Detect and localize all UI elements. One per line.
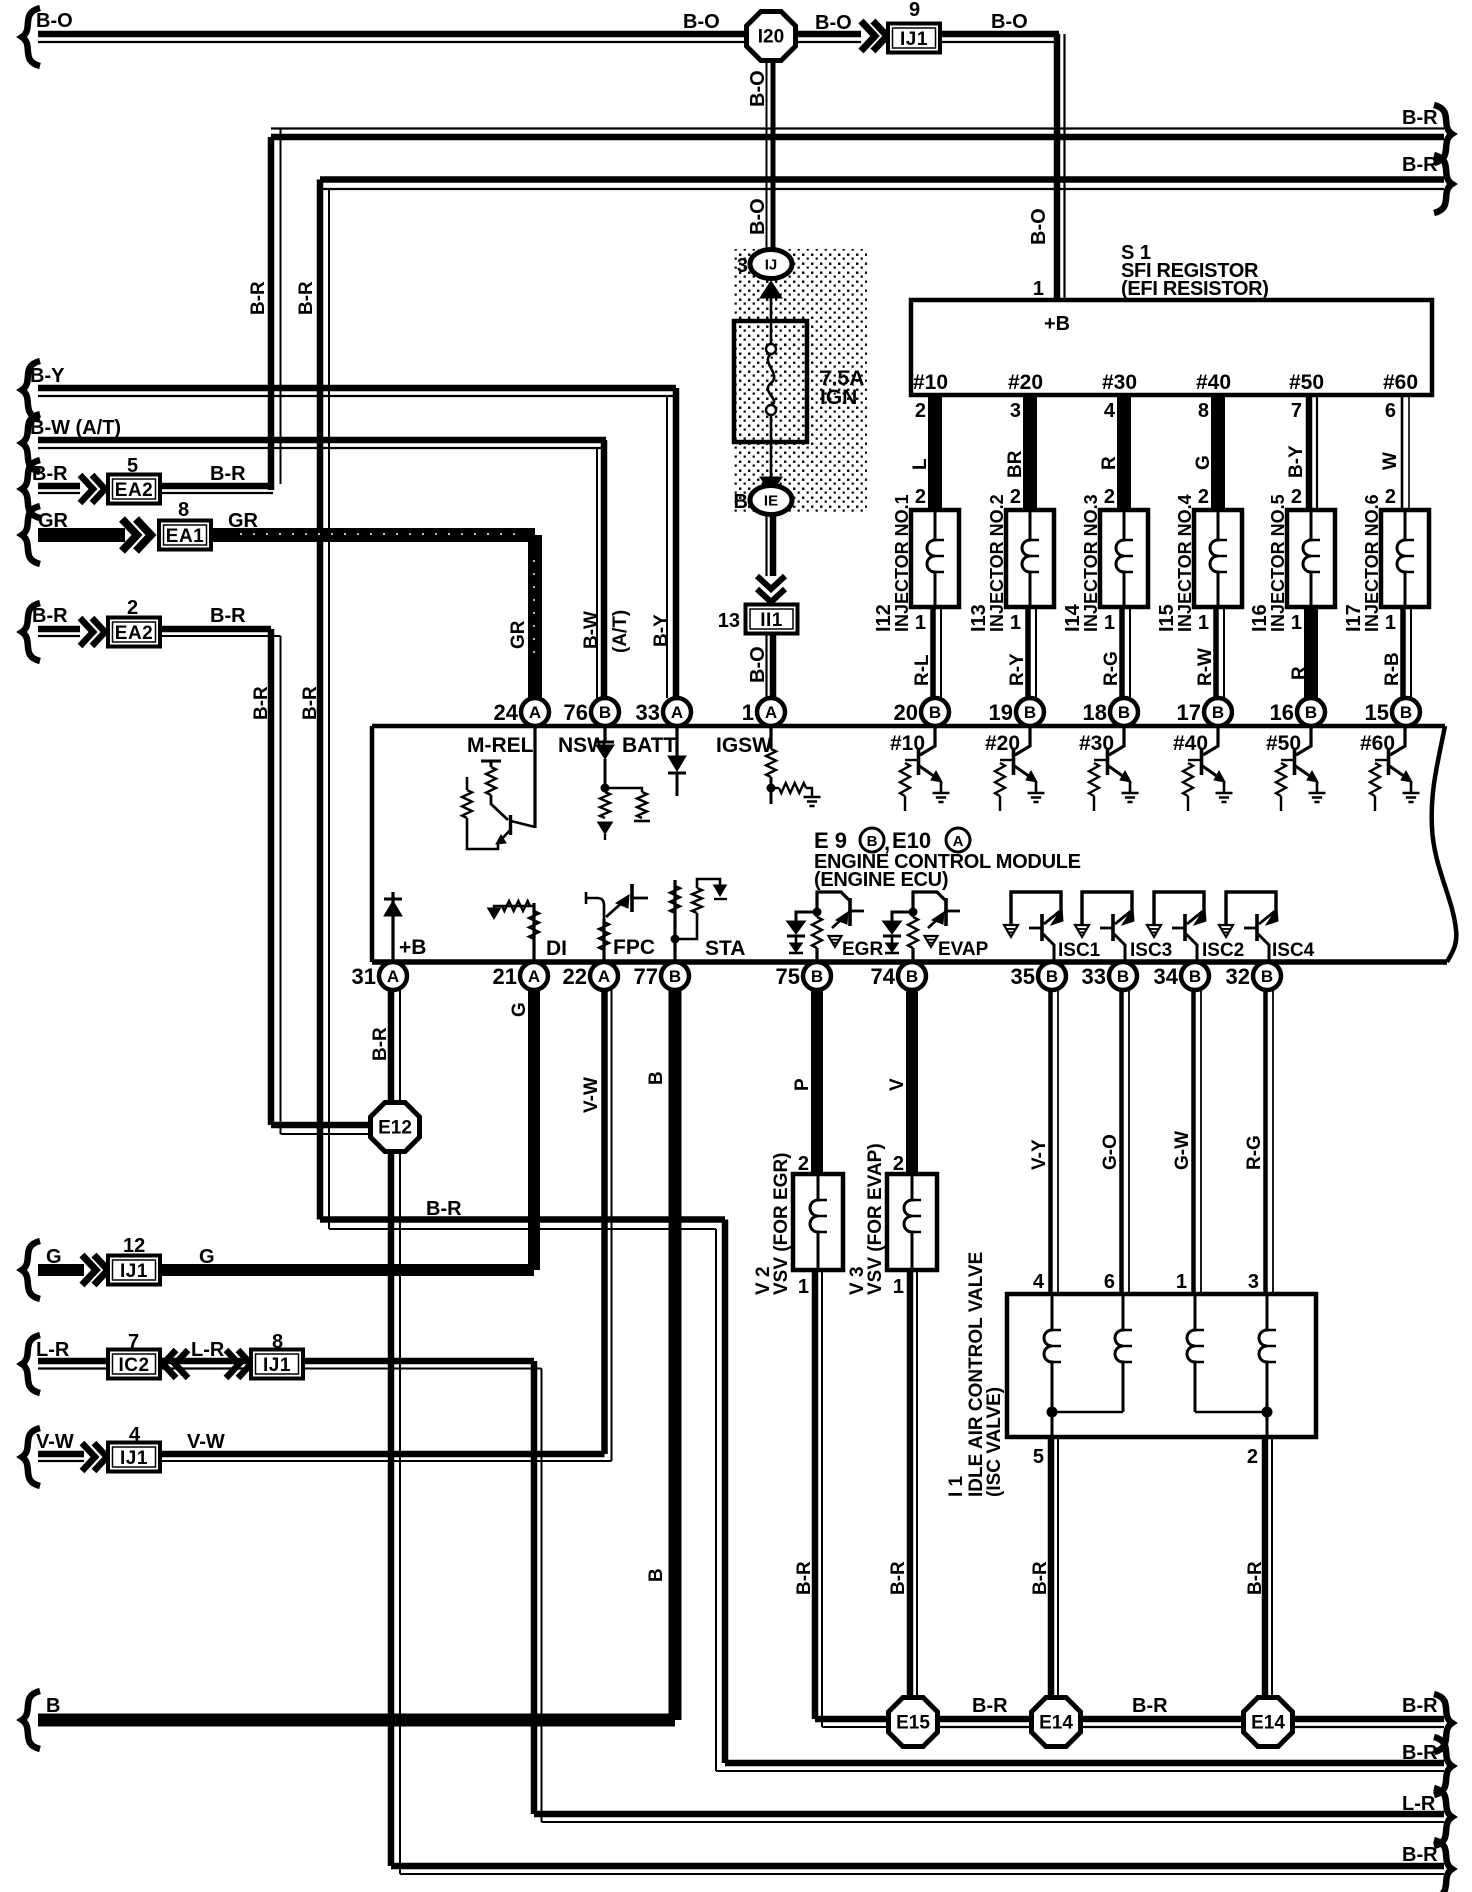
- svg-text:22: 22: [563, 964, 587, 989]
- ECU top pin 15(B): [1365, 698, 1420, 726]
- svg-text:B-R: B-R: [1402, 1695, 1438, 1717]
- svg-text:2: 2: [1247, 1446, 1258, 1468]
- wire B-O from IJ1 to SFI resistor +B: [940, 11, 1065, 300]
- svg-text:B-R: B-R: [1402, 1742, 1438, 1764]
- svg-text:#10: #10: [913, 371, 948, 394]
- svg-text:A: A: [671, 703, 683, 722]
- svg-text:4: 4: [129, 1424, 141, 1446]
- svg-text:EGR: EGR: [842, 939, 883, 960]
- SFI resistor output #60 label: [1383, 371, 1418, 394]
- svg-text:B-R: B-R: [248, 281, 269, 315]
- svg-text:#50: #50: [1289, 371, 1324, 394]
- wire G from page edge via IJ1 pin 12 to ECU pin 21(A) DI: [22, 1241, 84, 1299]
- wire B-R from E14 to E14: [1082, 1695, 1242, 1727]
- wire B-R horizontal 1223 turning down to bottom-right B-R output: [426, 1198, 1452, 1795]
- wire B-W (A/T) from page edge to ECU pin 76(B) NSW: [22, 414, 631, 698]
- svg-text:19: 19: [989, 700, 1013, 725]
- wire B-R lower to page right: [296, 154, 1452, 315]
- in-line connector oval 3 IJ: [737, 250, 792, 279]
- svg-text:V-W: V-W: [36, 1431, 74, 1453]
- svg-text:B-O: B-O: [747, 70, 769, 107]
- svg-text:R-W: R-W: [1195, 648, 1216, 686]
- svg-text:B-R: B-R: [1245, 1561, 1266, 1595]
- ECU internal injector driver #30: [1079, 728, 1139, 811]
- wire V-W from IJ1-4 up to pin 22(A): [160, 990, 612, 1461]
- ECU top pin 17(B): [1177, 698, 1232, 726]
- svg-text:II1: II1: [760, 610, 783, 631]
- wire B-R vertical from upper-right run down to lower junction: [300, 180, 725, 1230]
- svg-text:INJECTOR NO.6: INJECTOR NO.6: [1362, 494, 1382, 632]
- wire V from ECU pin 74(B) to VSV for EVAP: [887, 990, 912, 1175]
- svg-text:8: 8: [1198, 400, 1209, 422]
- in-line connector oval B IE: [734, 486, 792, 515]
- ECU internal EVAP driver with zener: [883, 892, 989, 962]
- wire GR from page edge via EA1 pin 8 to ECU pin 24(A) M-REL: [22, 506, 125, 564]
- svg-text:7: 7: [1291, 400, 1302, 422]
- wire G-O from ECU to ISC valve pin 6: [1100, 990, 1129, 1294]
- ECU top pin 33(A): [636, 698, 691, 726]
- svg-text:B-R: B-R: [251, 686, 272, 720]
- svg-text:I20: I20: [758, 27, 784, 48]
- svg-text:B-Y: B-Y: [651, 614, 672, 647]
- ECU bottom pin 34(B): [1154, 962, 1209, 990]
- wire B-R from ECU pin 31(A) to ground connector E12: [370, 990, 400, 1101]
- svg-text:EA2: EA2: [115, 480, 153, 501]
- svg-text:13: 13: [718, 610, 740, 632]
- connector EA1 pin 8: [159, 499, 211, 550]
- junction block IJ1, pin 9: [888, 0, 940, 53]
- wire R-G from injector no.3 to ECU pin: [1101, 607, 1130, 698]
- SFI resistor output #40 label: [1196, 371, 1231, 394]
- label E 9 (B), E10 (A): [814, 828, 970, 855]
- svg-text:5: 5: [127, 455, 138, 477]
- wire B-R from E12 down to page bottom right: [391, 1153, 1452, 1892]
- svg-text:IC2: IC2: [118, 1355, 149, 1376]
- svg-text:1: 1: [1176, 1271, 1187, 1293]
- svg-text:7: 7: [128, 1331, 139, 1353]
- VSV (for EGR) V2 solenoid: [753, 1152, 843, 1298]
- wire R-Y from injector no.2 to ECU pin: [1007, 607, 1036, 698]
- ECU top pin 20(B): [894, 698, 949, 726]
- svg-text:E15: E15: [896, 1713, 930, 1734]
- wire W from resistor pin 6 to injector no.6: [1380, 395, 1409, 510]
- svg-text:IJ1: IJ1: [263, 1355, 291, 1376]
- svg-text:ISC2: ISC2: [1202, 940, 1244, 961]
- ECU bottom pin 35(B): [1011, 962, 1066, 990]
- ECU bottom pin 33(B): [1082, 962, 1137, 990]
- svg-text:32: 32: [1226, 964, 1250, 989]
- shaded area around fuse 7.5A IGN: [734, 249, 867, 512]
- arrow into IJ1-12: [82, 1255, 108, 1285]
- wire G from resistor pin 8 to injector no.4: [1193, 395, 1218, 510]
- svg-text:31: 31: [352, 964, 376, 989]
- ECU internal STA starter input: [670, 879, 745, 962]
- svg-text:B: B: [1024, 703, 1036, 722]
- wire GR from EA1 turning down to pin 24(A): [211, 510, 535, 698]
- ECU internal FPC fuel pump control transistor: [586, 884, 655, 962]
- svg-text:B-O: B-O: [1028, 208, 1050, 245]
- svg-text:2: 2: [1104, 486, 1115, 508]
- SFI resistor output #30 label: [1102, 371, 1137, 394]
- svg-text:#60: #60: [1383, 371, 1418, 394]
- svg-text:B-O: B-O: [747, 198, 769, 235]
- wire B-R from EA2-5 to vertical: [160, 463, 273, 493]
- svg-text:3: 3: [1010, 400, 1021, 422]
- svg-text:2: 2: [1198, 486, 1209, 508]
- svg-text:B: B: [1400, 703, 1412, 722]
- svg-text:3: 3: [737, 255, 748, 277]
- wire B-Y from resistor pin 7 to injector no.5: [1286, 395, 1317, 510]
- wire R from injector no.5 to ECU pin: [1289, 607, 1311, 698]
- svg-text:B: B: [867, 833, 878, 850]
- svg-text:GR: GR: [508, 620, 529, 649]
- wire P from ECU pin 75(B) to VSV for EGR: [792, 990, 817, 1175]
- svg-text:8: 8: [272, 1331, 283, 1353]
- wire R-B from injector no.6 to ECU pin: [1382, 607, 1411, 698]
- svg-text:2: 2: [915, 400, 926, 422]
- svg-text:B-W (A/T): B-W (A/T): [30, 417, 121, 439]
- svg-text:2: 2: [893, 1153, 904, 1175]
- ECU internal NSW input: [558, 726, 650, 840]
- svg-text:A: A: [953, 833, 964, 850]
- svg-text:VSV (FOR EVAP): VSV (FOR EVAP): [865, 1143, 886, 1295]
- svg-text:VSV (FOR EGR): VSV (FOR EGR): [771, 1152, 792, 1295]
- ISC valve common bus with junctions: [1047, 1407, 1272, 1437]
- svg-text:B: B: [929, 703, 941, 722]
- svg-text:DI: DI: [546, 937, 567, 960]
- wire B-R from page edge via EA2 pin 2 down to ground connector E12: [22, 603, 80, 661]
- ECU internal injector driver #60: [1360, 728, 1420, 811]
- wire B-R upper to page right: [248, 105, 1452, 490]
- ECU bottom pin 22(A): [563, 962, 618, 990]
- ECU bottom pin 31(A): [352, 962, 407, 990]
- svg-text:B-R: B-R: [1132, 1695, 1168, 1717]
- svg-text:2: 2: [915, 486, 926, 508]
- wire G-W from ECU to ISC valve pin 1: [1172, 990, 1201, 1294]
- ground connector E14 (left): [1032, 1698, 1081, 1747]
- svg-text:1: 1: [1104, 612, 1115, 634]
- svg-text:IGSW: IGSW: [716, 734, 772, 757]
- ECU internal injector driver #50: [1266, 728, 1326, 811]
- svg-text:A: A: [529, 703, 541, 722]
- svg-text:E12: E12: [378, 1118, 412, 1139]
- fuse 7.5A IGN: [734, 321, 864, 442]
- svg-text:1: 1: [742, 700, 754, 725]
- svg-text:A: A: [387, 967, 399, 986]
- SFI resistor output #50 label: [1289, 371, 1324, 394]
- arrow into EA1: [122, 519, 151, 551]
- svg-text:L-R: L-R: [1402, 1793, 1436, 1815]
- svg-text:I 1: I 1: [946, 1475, 967, 1497]
- svg-text:B: B: [599, 703, 611, 722]
- svg-text:L-R: L-R: [36, 1339, 70, 1361]
- svg-text:G: G: [46, 1246, 62, 1268]
- svg-text:L: L: [910, 458, 931, 470]
- ECU internal DI: [488, 901, 568, 962]
- svg-text:E14: E14: [1039, 1713, 1073, 1734]
- svg-text:B: B: [1305, 703, 1317, 722]
- junction block IJ1 pin 8: [251, 1331, 303, 1379]
- svg-text:24: 24: [494, 700, 519, 725]
- connector EA2 pin 5: [108, 455, 160, 504]
- svg-text:BR: BR: [1005, 450, 1026, 478]
- ECU internal IGSW input: [716, 726, 821, 806]
- svg-text:B-R: B-R: [210, 605, 246, 627]
- svg-text:B-O: B-O: [991, 11, 1028, 33]
- svg-text:#30: #30: [1102, 371, 1137, 394]
- wire B-R from EA2-2 down to E12: [160, 605, 369, 1134]
- wire B-O from II1 to ECU pin 1(A) IGSW: [747, 633, 773, 698]
- ECU internal ISC4 driver: [1219, 892, 1315, 962]
- ECU internal ISC3 driver: [1075, 892, 1172, 962]
- wire B-R from VSV EGR pin 1 to ground connector E15: [794, 1270, 888, 1727]
- svg-text:G-O: G-O: [1100, 1134, 1121, 1170]
- svg-text:1: 1: [1385, 612, 1396, 634]
- svg-text:E10: E10: [892, 828, 931, 853]
- svg-text:INJECTOR NO.1: INJECTOR NO.1: [892, 494, 912, 632]
- svg-text:B: B: [1046, 967, 1058, 986]
- svg-text:6: 6: [1104, 1271, 1115, 1293]
- ECU bottom pin 32(B): [1226, 962, 1281, 990]
- connector EA2 pin 2: [108, 597, 160, 647]
- ISC valve coil 3: [1187, 1296, 1204, 1412]
- wire L-R from page edge via IC2 pin 7 and IJ1 pin 8 to page bottom: [22, 1335, 108, 1393]
- label ENGINE CONTROL MODULE (ENGINE ECU): [814, 851, 1081, 891]
- svg-text:B-R: B-R: [1402, 1844, 1438, 1866]
- svg-text:2: 2: [1010, 486, 1021, 508]
- svg-text:IE: IE: [764, 493, 778, 510]
- junction block II1, pin 13: [718, 605, 798, 634]
- ECU internal ISC2 driver: [1147, 892, 1244, 962]
- svg-text:77: 77: [634, 964, 658, 989]
- svg-text:16: 16: [1270, 700, 1294, 725]
- svg-text:B: B: [646, 1568, 667, 1582]
- ECU bottom pin 74(B): [871, 962, 926, 990]
- svg-text:E 9: E 9: [814, 828, 847, 853]
- svg-text:M-REL: M-REL: [467, 734, 534, 757]
- svg-text:STA: STA: [705, 937, 745, 960]
- svg-text:B: B: [906, 967, 918, 986]
- SFI resistor S1 box: [911, 242, 1432, 395]
- svg-text:INJECTOR NO.2: INJECTOR NO.2: [987, 494, 1007, 632]
- svg-text:B-R: B-R: [1030, 1561, 1051, 1595]
- svg-text:P: P: [792, 1078, 813, 1091]
- svg-text:W: W: [1380, 452, 1401, 470]
- svg-text:B-O: B-O: [683, 11, 720, 33]
- engine control module box outline: [372, 726, 1456, 962]
- svg-text:5: 5: [1033, 1446, 1044, 1468]
- ECU internal injector driver #10: [890, 728, 950, 811]
- arrow into IJ1-4: [82, 1443, 107, 1471]
- svg-text:L-R: L-R: [191, 1339, 225, 1361]
- SFI resistor output #10 label: [913, 371, 948, 394]
- wire R-G from ECU to ISC valve pin 3: [1244, 990, 1273, 1294]
- svg-text:4: 4: [1104, 400, 1116, 422]
- wire R-L from injector no.1 to ECU pin: [912, 607, 941, 698]
- svg-text:R-Y: R-Y: [1007, 653, 1028, 686]
- svg-text:R-B: R-B: [1382, 652, 1403, 686]
- arrow into EA2: [80, 475, 105, 503]
- svg-text:4: 4: [1033, 1271, 1045, 1293]
- svg-text:#40: #40: [1196, 371, 1231, 394]
- svg-text:B-Y: B-Y: [1286, 445, 1307, 478]
- ECU internal +B diode: [384, 892, 426, 962]
- svg-text:20: 20: [894, 700, 918, 725]
- svg-text:9: 9: [909, 0, 920, 21]
- ECU top pin 24(A): [494, 698, 549, 726]
- arrows into II1: [757, 576, 785, 602]
- svg-text:35: 35: [1011, 964, 1035, 989]
- svg-text:17: 17: [1177, 700, 1201, 725]
- svg-text:1: 1: [1198, 612, 1209, 634]
- svg-text:B-R: B-R: [370, 1027, 391, 1061]
- wire L from resistor pin 2 to injector no.1: [910, 395, 935, 510]
- svg-text:IJ1: IJ1: [120, 1261, 148, 1282]
- ECU top pin 16(B): [1270, 698, 1325, 726]
- svg-text:15: 15: [1365, 700, 1389, 725]
- svg-text:V-Y: V-Y: [1029, 1139, 1050, 1170]
- svg-text:(ISC VALVE): (ISC VALVE): [984, 1387, 1005, 1497]
- injector no.3 (I14): [1062, 486, 1148, 634]
- svg-text:#20: #20: [1008, 371, 1043, 394]
- SFI resistor output #20 label: [1008, 371, 1043, 394]
- injector no.2 (I13): [968, 486, 1054, 634]
- svg-text:EA1: EA1: [166, 526, 204, 547]
- svg-text:2: 2: [127, 597, 138, 619]
- svg-text:B-O: B-O: [747, 646, 769, 683]
- svg-text:IGN: IGN: [820, 386, 857, 409]
- injector no.5 (I16): [1249, 486, 1335, 634]
- ISC valve coil 2: [1115, 1296, 1132, 1412]
- wire L-R from IJ1-8 down to page bottom right: [303, 1361, 1452, 1846]
- arrow into fuse from connector: [760, 281, 782, 321]
- connector IC2 pin 7: [108, 1331, 160, 1379]
- svg-text:EVAP: EVAP: [938, 939, 989, 960]
- ECU internal BATT input diode: [622, 726, 686, 796]
- ECU top pin 19(B): [989, 698, 1044, 726]
- svg-text:ISC3: ISC3: [1130, 940, 1172, 961]
- svg-text:V-W: V-W: [581, 1077, 602, 1113]
- svg-text:1: 1: [915, 612, 926, 634]
- svg-text:B-R: B-R: [794, 1561, 815, 1595]
- svg-text:INJECTOR NO.4: INJECTOR NO.4: [1175, 494, 1195, 632]
- svg-text:E14: E14: [1251, 1713, 1285, 1734]
- svg-text:ISC1: ISC1: [1058, 940, 1101, 961]
- wire V-W from page edge via IJ1 pin 4 to ECU pin 22(A) FPC: [22, 1428, 84, 1486]
- svg-text:B-O: B-O: [815, 12, 852, 34]
- wire from fuse to connector B IE with arrow: [760, 442, 782, 494]
- svg-text:B-R: B-R: [426, 1198, 462, 1220]
- wire B-R from page edge via EA2 pin 5 up to top B-R run: [22, 460, 80, 518]
- wire B-R from E15 to E14: [939, 1695, 1030, 1727]
- svg-text:B: B: [669, 967, 681, 986]
- ECU internal ISC1 driver: [1004, 892, 1101, 962]
- svg-text:74: 74: [871, 964, 896, 989]
- junction connector I20: [747, 12, 796, 61]
- svg-text:B-R: B-R: [296, 281, 317, 315]
- svg-text:2: 2: [1291, 486, 1302, 508]
- svg-text:ISC4: ISC4: [1272, 940, 1315, 961]
- junction block IJ1 pin 12: [108, 1235, 160, 1285]
- svg-text:B-R: B-R: [32, 605, 68, 627]
- arrow (male connector) into IJ1: [861, 21, 887, 51]
- svg-text:B-W: B-W: [581, 611, 602, 649]
- injector no.1 (I12): [873, 486, 959, 634]
- junction block IJ1 pin 4: [108, 1424, 160, 1472]
- svg-text:G: G: [1193, 455, 1214, 470]
- svg-text:INJECTOR NO.5: INJECTOR NO.5: [1268, 494, 1288, 632]
- svg-text:R: R: [1289, 666, 1310, 680]
- svg-text:B: B: [1117, 967, 1129, 986]
- ECU top pin 1(A): [742, 698, 785, 726]
- injector no.6 (I17): [1343, 486, 1429, 634]
- wire B-R from E14 to page right: [1294, 1694, 1452, 1752]
- svg-text:B-R: B-R: [32, 463, 68, 485]
- svg-text:R-G: R-G: [1101, 651, 1122, 686]
- svg-text:EA2: EA2: [115, 623, 153, 644]
- svg-text:B-R: B-R: [1402, 154, 1438, 176]
- svg-text:8: 8: [178, 499, 189, 521]
- svg-text:G-W: G-W: [1172, 1131, 1193, 1170]
- ECU internal injector driver #40: [1173, 728, 1233, 811]
- svg-text:IJ: IJ: [765, 257, 778, 274]
- svg-text:+B: +B: [399, 936, 426, 959]
- wire B-R from ISC valve pin 5 to ground connector E14: [1030, 1437, 1058, 1697]
- ground connector E15: [889, 1698, 938, 1747]
- wire B-O from IE connector to junction block II1 pin 13: [767, 515, 774, 576]
- wire B-Y from page edge to ECU pin 33(A) BATT: [22, 361, 676, 698]
- svg-text:B-R: B-R: [888, 1561, 909, 1595]
- wire V-Y from ECU to ISC valve pin 4: [1029, 990, 1058, 1294]
- svg-text:B: B: [811, 967, 823, 986]
- injector no.4 (I15): [1156, 486, 1242, 634]
- svg-text:B: B: [1189, 967, 1201, 986]
- ground connector E14 (right): [1244, 1698, 1293, 1747]
- wire B-O from page edge to junction connector I20: [22, 8, 749, 66]
- ECU bottom pin 77(B): [634, 962, 689, 990]
- svg-text:IJ1: IJ1: [900, 29, 928, 50]
- svg-text:B: B: [1118, 703, 1130, 722]
- svg-text:G: G: [509, 1002, 530, 1017]
- wire G from IJ1-12 up to pin 21(A): [160, 990, 534, 1270]
- ECU internal M-REL relay driver: [462, 726, 535, 849]
- wire R from resistor pin 4 to injector no.3: [1099, 395, 1124, 510]
- svg-text:B-O: B-O: [36, 10, 73, 32]
- svg-text:R-G: R-G: [1244, 1135, 1265, 1170]
- svg-text:1: 1: [893, 1276, 904, 1298]
- svg-text:V: V: [887, 1078, 908, 1091]
- wire R-W from injector no.4 to ECU pin: [1195, 607, 1224, 698]
- svg-text:6: 6: [1385, 400, 1396, 422]
- svg-text:B-R: B-R: [972, 1695, 1008, 1717]
- ECU internal EGR driver with zener: [787, 892, 884, 962]
- svg-text:B: B: [734, 491, 748, 513]
- svg-text:BATT: BATT: [622, 734, 677, 757]
- svg-text:(ENGINE ECU): (ENGINE ECU): [814, 869, 948, 891]
- svg-text:2: 2: [798, 1153, 809, 1175]
- svg-text:A: A: [528, 967, 540, 986]
- svg-text:33: 33: [636, 700, 660, 725]
- wire B-O from I20 down to fuse (via in-line connector): [747, 62, 773, 250]
- arrows between IC2 and IJ1: [160, 1339, 251, 1378]
- wire B-R from VSV EVAP pin 1 to ground connector E15: [888, 1270, 917, 1697]
- svg-text:V-W: V-W: [187, 1431, 225, 1453]
- svg-text:A: A: [765, 703, 777, 722]
- svg-text:1: 1: [1033, 278, 1044, 300]
- svg-text:1: 1: [798, 1276, 809, 1298]
- svg-text:R: R: [1099, 456, 1120, 470]
- svg-text:INJECTOR NO.3: INJECTOR NO.3: [1081, 494, 1101, 632]
